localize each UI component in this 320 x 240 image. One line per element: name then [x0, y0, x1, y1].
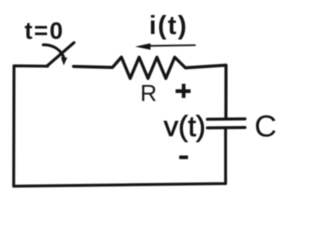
svg-text:R: R — [140, 80, 157, 106]
svg-text:v(t): v(t) — [164, 111, 206, 143]
svg-text:C: C — [254, 109, 276, 144]
svg-text:t=0: t=0 — [25, 18, 65, 45]
svg-text:i(t): i(t) — [149, 10, 188, 40]
